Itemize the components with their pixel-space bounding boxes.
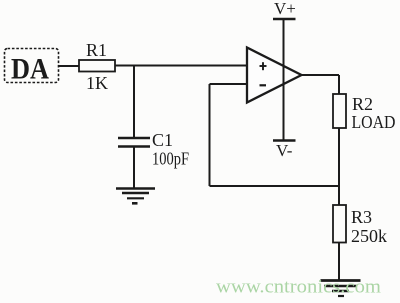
svg-text:V+: V+ xyxy=(274,0,296,18)
svg-text:R1: R1 xyxy=(86,40,107,60)
svg-text:V-: V- xyxy=(276,141,293,160)
svg-text:www.cntronics.com: www.cntronics.com xyxy=(216,277,381,298)
svg-text:250k: 250k xyxy=(351,226,387,246)
svg-text:LOAD: LOAD xyxy=(352,112,396,132)
svg-text:C1: C1 xyxy=(152,130,173,150)
svg-text:1K: 1K xyxy=(86,73,108,93)
svg-text:R3: R3 xyxy=(351,207,372,227)
svg-text:100pF: 100pF xyxy=(152,149,189,169)
svg-text:DA: DA xyxy=(11,53,50,85)
svg-text:R2: R2 xyxy=(352,94,373,114)
